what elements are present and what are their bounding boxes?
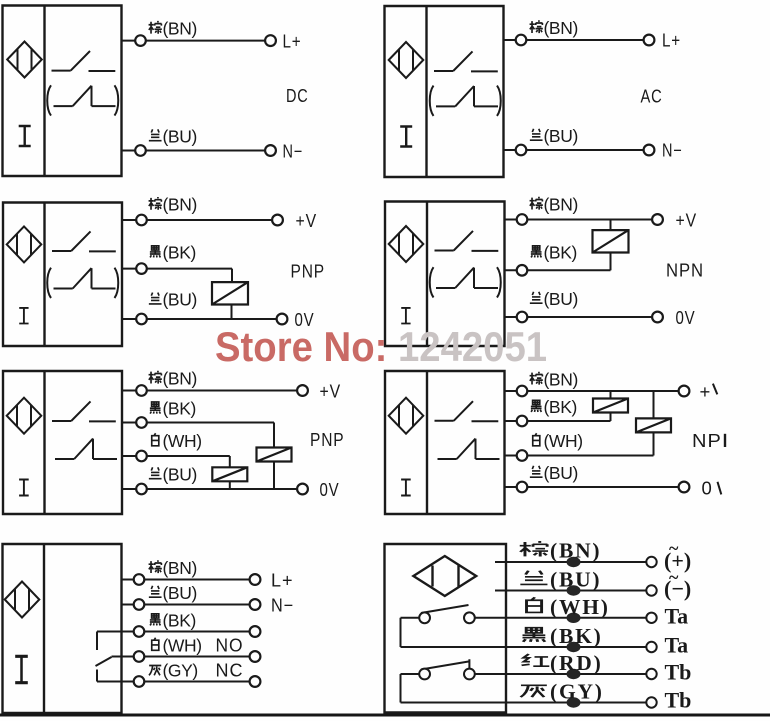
wire WH row4R [475,617,646,619]
svg-text:L+: L+ [271,570,294,591]
letter I label U2 [400,127,412,147]
proximity head symbol U5 [7,398,42,434]
wire BN row2L [122,219,272,221]
svg-text:(BN): (BN) [550,539,601,563]
label 棕(BN) [530,195,578,215]
wire WH row3L with branch down [122,456,230,467]
svg-text:N−: N− [283,140,304,161]
node circle BN row1R [516,35,527,46]
junction dot WH row4R [567,613,581,623]
svg-text:(WH): (WH) [550,595,610,619]
svg-text:(BK): (BK) [163,611,196,631]
node circle BN row4L [134,574,145,585]
terminal Ta2 row4R [646,642,656,652]
wire BU row2R [505,316,653,318]
svg-text:(GY): (GY) [550,680,604,704]
wire BK row2L with branch down [122,269,232,282]
label 白(WH) row4R [527,595,610,619]
svg-text:(BN): (BN) [544,370,578,390]
wire BN row2R [505,219,653,221]
sensor block U8 outline [385,544,507,713]
svg-text:(BU): (BU) [544,463,578,483]
proximity head symbol U1 [7,42,42,78]
node circle BU row2R [517,312,528,323]
parentheses around step contact U4 [430,267,501,297]
label ~(+) row4R [664,538,691,573]
wire BN row1R [504,39,644,41]
terminal BK row4L [250,626,261,637]
bottom photo border [0,714,770,717]
label 兰(BU) [149,465,197,485]
terminal +V row3L [297,385,308,396]
terminal L+ row4L [250,574,261,585]
switch Tb blade row4R [421,659,469,669]
label 棕(BN) [149,19,197,39]
svg-text:Ta: Ta [665,604,689,629]
letter I label U3 [19,308,28,324]
step contact switch U6 [438,439,500,459]
proximity head symbol U6 [389,398,424,434]
NO contact switch U2 [434,51,498,71]
node circle BU row3L [136,484,147,495]
wire BN row4R [495,561,647,563]
letter I label U5 [19,480,29,496]
NO contact switch U5 [52,401,116,421]
terminal WH row4L [250,651,261,662]
junction dot RD row4R [567,669,581,679]
wire GY row4L with NC bracket [97,670,250,682]
node circle BN row3L [136,385,147,396]
svg-text:DC: DC [286,85,309,106]
NO contact switch U6 [435,401,499,421]
label 棕(BN) [149,369,197,389]
svg-text:(WH): (WH) [163,636,202,656]
svg-text:0: 0 [702,478,713,499]
label 兰(BU) [530,289,578,309]
svg-text:N−: N− [662,140,683,161]
sensor block U7 outline [3,544,122,713]
node circle BN row2R [517,214,528,225]
label 棕(BN) row4R [520,539,602,563]
wire load1 to BU row3L [273,462,275,490]
sensor block U5 outline [3,371,122,514]
sensor block U6 outline [385,371,505,514]
node circle BN row3R [517,386,528,397]
wire load down to BK row2R [610,253,612,270]
switch Ta contact circle right [464,612,475,623]
step contact switch U1 [54,86,116,106]
load resistor 2 row3L [212,467,247,481]
node circle BK row2L [136,263,147,274]
junction dot BK row4R [567,642,581,652]
switch Tb contact circle right [464,669,475,680]
NO contact switch U3 [52,231,116,251]
wire BU row3R [505,486,679,488]
wire BK common row4L [97,631,250,633]
switch Ta pivot circle left [419,612,430,623]
node circle BK row3R [517,416,528,427]
node circle BU row2L [136,314,147,325]
terminal L+ row1L [265,35,276,46]
svg-text:(BK): (BK) [163,243,196,263]
terminal Tb2 row4R [646,697,656,707]
load resistor 1 row3R [593,399,628,413]
terminal Tb1 row4R [646,669,656,679]
svg-text:+V: +V [320,381,342,402]
terminal circle BN row4R [646,557,656,567]
wire BK row4R from switch Ta [401,618,646,647]
label 黑(BK) row4R [523,624,603,648]
terminal 0V row2L [277,314,288,325]
step contact switch U5 [55,439,117,459]
svg-text:(BU): (BU) [163,465,197,485]
svg-text:+V: +V [676,210,698,231]
proximity head symbol U2 [389,42,424,78]
label 白(WH) [152,636,202,656]
svg-text:L+: L+ [662,30,681,51]
label 黑(BK) [150,611,196,631]
label 兰(BU) [149,583,197,603]
load resistor row2R [593,230,629,252]
sensor block U4 outline [385,202,505,347]
svg-text:+: + [700,381,712,402]
svg-text:(RD): (RD) [550,651,603,675]
label 兰(BU) [149,127,197,147]
label 黑(BK) [150,243,196,263]
svg-text:(BU): (BU) [163,583,197,603]
label 棕(BN) [149,195,197,215]
wire junction BN down to load2 row3R [653,391,655,418]
terminal 0V row2R [652,312,663,323]
svg-text:~: ~ [669,538,679,558]
label 兰(BU) [149,290,197,310]
svg-text:(GY): (GY) [163,661,198,681]
terminal circle BU row4R [646,585,656,595]
switch Tb pivot circle left [419,669,430,680]
node circle WH row3R [517,450,528,461]
wire junction BN down to load1 row3R [610,391,612,398]
node circle GY row4L [134,676,145,687]
letter I label U1 [19,126,31,146]
node circle BK row4L [134,626,145,637]
sensor block U1 outline [3,6,122,177]
svg-text:Tb: Tb [665,660,692,685]
svg-text:Ta: Ta [665,633,689,658]
wire load2 to BU row3L [229,481,231,489]
sensor block U3 outline [3,203,122,347]
svg-text:N−: N− [271,595,294,616]
svg-text:(BU): (BU) [544,126,578,146]
node circle BU row1L [135,145,146,156]
svg-text:(BK): (BK) [544,243,577,263]
proximity head symbol U4 [389,226,424,262]
label 棕(BN) [530,370,578,390]
step contact switch U4 [436,268,498,288]
svg-text:(BU): (BU) [544,289,578,309]
junction dot GY row4R [567,697,581,707]
wire BN row1L [122,40,266,42]
step contact switch U3 [54,268,116,288]
wire BN row3L [122,390,297,392]
wire load to 0V row2L [231,305,233,320]
wire load1 down to BK row3R [610,413,612,422]
svg-text:(BU): (BU) [163,290,197,310]
svg-text:(WH): (WH) [163,431,202,451]
proximity head symbol U3 [7,226,42,262]
svg-text:PNP: PNP [291,261,326,282]
svg-text:(BU): (BU) [550,568,601,592]
label 白(WH) [533,431,583,451]
wire GY row4R from switch Tb [401,674,646,703]
wire BU row1R [504,149,644,151]
label 棕(BN) [530,18,578,38]
letter I label U4 [401,308,410,324]
wire BN row3R [505,390,679,392]
svg-text:(BN): (BN) [163,195,197,215]
svg-text:0V: 0V [676,307,696,328]
label 棕(BN) [149,558,197,578]
label 白(WH) [152,431,202,451]
label 黑(BK) [150,399,196,419]
wire BU row4R [495,590,647,592]
wire BK row2R [505,269,611,271]
terminal +V row2L [272,215,283,226]
svg-text:(BN): (BN) [163,19,197,39]
proximity head symbol U8 wide diamond [413,556,476,596]
terminal N- row1L [265,145,276,156]
label 兰(BU) row4R [520,568,601,592]
label 兰(BU) [530,126,578,146]
label 灰(GY) row4R [521,680,604,704]
step contact switch U2 [436,86,498,106]
proximity head symbol U7 [5,582,40,618]
terminal 0V row3R [679,482,690,493]
parentheses around step contact U1 [47,85,118,115]
NO contact switch U1 [52,51,116,71]
node circle BK row3L [136,417,147,428]
svg-text:AC: AC [641,86,663,107]
terminal N- row1R [644,145,655,156]
node circle BU row1R [516,145,527,156]
svg-text:Tb: Tb [665,688,692,713]
svg-text:L+: L+ [283,30,302,51]
node circle BN row1L [135,35,146,46]
wire WH row3R [505,455,654,457]
terminal +V row3R [679,386,690,397]
letter I label U7 [15,656,28,682]
wire junction +V down to load row2R [610,220,612,230]
svg-text:+V: +V [296,210,318,231]
switch blade row4L [96,657,112,666]
wire BK row3L with branch down [122,423,274,448]
wire BU row4L [122,604,250,606]
node circle WH row4L [134,651,145,662]
wire WH row4L [112,656,250,658]
wire BK row3R [505,420,611,422]
NO contact switch U4 [435,231,499,251]
svg-text:(BN): (BN) [544,195,578,215]
terminal N- row4L [250,599,261,610]
wire BU row1L [122,150,266,152]
junction dot BN row4R [567,557,581,567]
svg-text:(WH): (WH) [544,431,583,451]
terminal 0V row3L [297,484,308,495]
label 黑(BK) [531,243,577,263]
svg-text:PNP: PNP [310,429,345,450]
terminal GY row4L [250,676,261,687]
terminal Ta1 row4R [646,613,656,623]
svg-text:NP: NP [692,430,722,451]
label 红(RD) row4R [522,651,603,675]
parentheses around step contact U2 [430,86,501,116]
node circle BK row2R [517,265,528,276]
node circle BN row2L [136,215,147,226]
svg-text:(BN): (BN) [163,558,197,578]
sensor block U2 outline [385,6,504,177]
parentheses around step contact U3 [47,268,118,298]
svg-text:(BN): (BN) [163,369,197,389]
svg-text:Store No: 1242051: Store No: 1242051 [215,323,547,370]
svg-text:(BK): (BK) [550,624,603,648]
wire load2 down to WH row3R [653,432,655,455]
svg-text:(BU): (BU) [163,127,197,147]
junction dot BU row4R [567,585,581,595]
load resistor 1 row3L [257,448,292,462]
load resistor 2 row3R [636,418,671,432]
wire BU row2L [122,318,277,320]
wire BU row3L [122,488,297,490]
watermark Store No: 1242051 [215,323,547,370]
label ~(-) row4R [664,567,691,601]
svg-text:(BN): (BN) [544,18,578,38]
terminal +V row2R [652,214,663,225]
wire BN row4L [122,579,250,581]
svg-text:NPN: NPN [666,260,704,281]
load resistor row2L [212,282,248,304]
terminal L+ row1R [644,35,655,46]
svg-text:~: ~ [669,567,679,587]
node circle WH row3L [136,451,147,462]
svg-text:(BK): (BK) [544,397,577,417]
switch Ta blade row4R [421,605,469,613]
label 黑(BK) [531,397,577,417]
switch common bracket row4L [96,632,98,651]
wire RD row4R [475,673,646,675]
node circle BU row4L [134,599,145,610]
node circle BU row3R [517,482,528,493]
svg-text:NO: NO [216,635,244,656]
label 灰(GY) [149,661,198,681]
letter I label U6 [401,480,411,496]
svg-text:0V: 0V [320,479,340,500]
svg-text:(BK): (BK) [163,399,196,419]
svg-text:NC: NC [216,660,244,681]
label 兰(BU) [530,463,578,483]
